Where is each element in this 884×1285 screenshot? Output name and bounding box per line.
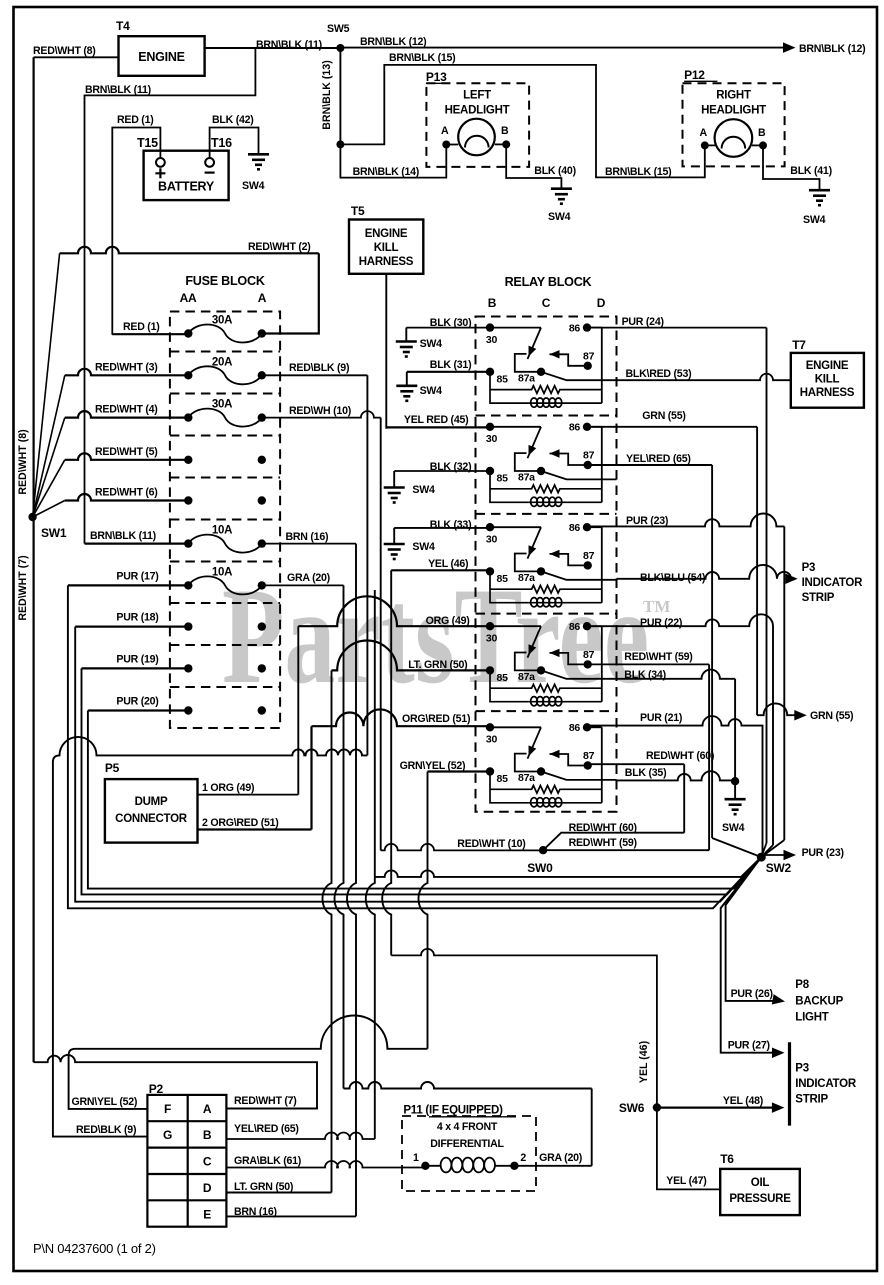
wire GRA (20) from fuse: [262, 584, 344, 586]
wire BRN\BLK (13) SW5 vertical: [339, 48, 341, 144]
svg-text:87: 87: [583, 450, 595, 462]
wire GRA (20) vertical to P11: [335, 585, 344, 1088]
svg-text:85: 85: [497, 573, 509, 585]
svg-text:HARNESS: HARNESS: [800, 387, 855, 399]
svg-text:YEL RED (45): YEL RED (45): [404, 414, 469, 426]
wire RED\WHT (60) to SW0: [543, 833, 684, 851]
svg-text:LT. GRN (50): LT. GRN (50): [408, 659, 467, 671]
connector T7 box: [791, 353, 864, 408]
wire RED\WHT (59) vertical: [708, 664, 710, 850]
wire YEL\RED (65) vertical to SW2: [711, 465, 713, 838]
svg-text:P5: P5: [105, 761, 120, 775]
wire RED\WHT (6): [65, 494, 189, 501]
svg-text:ENGINE: ENGINE: [365, 228, 408, 240]
wire BRN\BLK (11) into fuse: [85, 542, 189, 544]
wire YEL (48): [657, 1106, 777, 1108]
svg-text:RED\WHT (7): RED\WHT (7): [234, 1095, 297, 1107]
svg-text:85: 85: [497, 672, 509, 684]
fuse row 1 A dot: [258, 329, 266, 337]
headlight bulb P12: [715, 119, 753, 157]
svg-text:GRN\YEL (52): GRN\YEL (52): [72, 1096, 138, 1108]
svg-text:RED\WHT (60): RED\WHT (60): [646, 750, 714, 762]
relay K4: [486, 621, 617, 706]
wire BRN\BLK (11) branch down to fuse: [85, 48, 256, 544]
svg-text:87: 87: [583, 750, 595, 762]
fuse block row separator 6: [170, 561, 280, 563]
P11 coil: [425, 1165, 440, 1167]
svg-text:A: A: [441, 125, 449, 137]
relay K5: [486, 722, 617, 807]
svg-text:BRN\BLK (14): BRN\BLK (14): [353, 166, 419, 178]
arrow YEL (48): [772, 1102, 785, 1113]
svg-text:LT. GRN (50): LT. GRN (50): [234, 1181, 293, 1193]
wire BLK (35): [617, 771, 736, 780]
svg-text:BLK (41): BLK (41): [790, 165, 832, 177]
wire LT. GRN (50) horizontal: [332, 641, 491, 671]
fuse 10A row 7: [188, 576, 261, 594]
svg-text:LIGHT: LIGHT: [795, 1012, 828, 1024]
wire SW1 to RED\WHT (2) diagonal: [33, 253, 60, 517]
svg-text:BRN\BLK (12): BRN\BLK (12): [799, 43, 865, 55]
svg-text:GRN (55): GRN (55): [642, 410, 685, 422]
svg-text:B: B: [488, 296, 497, 310]
wire RED\WHT (4): [65, 411, 189, 418]
ground SW4 BLK34 BLK35: [734, 781, 736, 799]
wire YEL\RED (65) vertical from P2-B: [366, 590, 375, 1139]
svg-text:B: B: [501, 125, 509, 137]
wire RED (1) into fuse: [112, 333, 188, 335]
svg-text:P8: P8: [795, 979, 809, 991]
wire RED\WH (10) vertical: [380, 418, 382, 851]
svg-text:GRA\BLK (61): GRA\BLK (61): [234, 1155, 301, 1167]
svg-text:RED\WHT (8): RED\WHT (8): [17, 429, 29, 494]
svg-text:87a: 87a: [518, 572, 535, 584]
svg-text:PUR (20): PUR (20): [116, 696, 158, 708]
wire ORG\RED (51) vertical to P5: [310, 726, 312, 829]
node BLK (34)/(35) ground dot: [731, 777, 739, 785]
svg-text:RED\WHT (3): RED\WHT (3): [95, 361, 158, 373]
P3 indicator strip bar: [788, 1042, 791, 1125]
svg-text:C: C: [542, 296, 551, 310]
wire YEL (46) vertical: [382, 570, 391, 955]
svg-text:SW2: SW2: [766, 861, 792, 875]
svg-text:BRN\BLK (12): BRN\BLK (12): [360, 36, 426, 48]
wire RED\WHT (5): [65, 453, 189, 459]
battery T15 box: [144, 151, 229, 200]
svg-text:SW4: SW4: [420, 385, 443, 397]
svg-text:SW0: SW0: [527, 861, 553, 875]
relay block separator 1: [476, 415, 617, 417]
wire YEL\RED (65) bundle run to SW2: [375, 870, 741, 877]
connector P13 dashed box: [426, 83, 529, 167]
svg-text:BATTERY: BATTERY: [158, 180, 215, 194]
svg-text:4 x 4 FRONT: 4 x 4 FRONT: [437, 1121, 498, 1133]
fuse row 6 A dot: [258, 539, 266, 547]
svg-text:RED\BLK (9): RED\BLK (9): [76, 1124, 136, 1136]
wire BLK (34): [617, 670, 736, 679]
wire SW1 to RED\WHT (4) diagonal: [33, 418, 65, 517]
watermark PartsTree: [222, 560, 649, 712]
wire PUR (27) from SW2: [721, 857, 777, 1053]
svg-text:86: 86: [569, 722, 581, 734]
wire PUR (20): [88, 709, 188, 711]
svg-text:SW4: SW4: [412, 484, 435, 496]
wire GRN (55): [587, 426, 757, 428]
svg-text:GRA (20): GRA (20): [539, 1152, 582, 1164]
wire BRN\BLK (14): [340, 144, 446, 177]
fuse row 9 AA dot: [184, 664, 192, 672]
svg-text:2: 2: [520, 1152, 526, 1164]
svg-text:YEL (47): YEL (47): [666, 1175, 706, 1187]
wire P5 pin 1: [198, 794, 299, 796]
svg-text:P13: P13: [426, 70, 447, 84]
wire PUR (19): [82, 667, 189, 669]
wire ORG (49) vertical to P5: [297, 626, 299, 794]
svg-text:ENGINE: ENGINE: [138, 50, 184, 64]
ground SW4 battery: [248, 153, 269, 156]
wire YEL (47): [657, 1108, 720, 1190]
svg-text:ENGINE: ENGINE: [806, 360, 849, 372]
svg-text:KILL: KILL: [374, 242, 399, 254]
svg-text:HEADLIGHT: HEADLIGHT: [445, 105, 510, 117]
wire RED\WHT (10) to SW0: [381, 844, 543, 850]
pin B dot P12: [759, 141, 767, 149]
arrow BRN\BLK (12): [783, 42, 796, 53]
fuse row 2 AA dot: [184, 371, 192, 379]
svg-text:YEL (48): YEL (48): [723, 1095, 763, 1107]
svg-text:SW6: SW6: [619, 1101, 645, 1115]
svg-text:87: 87: [583, 351, 595, 363]
svg-text:A: A: [700, 127, 708, 139]
svg-text:P11 (IF EQUIPPED): P11 (IF EQUIPPED): [403, 1105, 503, 1117]
P11 pin 1 dot: [421, 1162, 429, 1170]
svg-text:87a: 87a: [518, 671, 535, 683]
P11 pin 2 dot: [510, 1162, 518, 1170]
wire BLK (40): [506, 144, 561, 188]
wire RED\WHT (59) from relay: [588, 663, 709, 665]
connector P2 table: [147, 1095, 226, 1227]
fuse row 6 AA dot: [184, 539, 192, 547]
wire GRN (55) vertical: [756, 427, 758, 715]
svg-text:GRA (20): GRA (20): [287, 572, 330, 584]
wire YEL\RED (65) P2 run: [226, 1133, 374, 1140]
svg-text:STRIP: STRIP: [795, 1094, 828, 1106]
wire PUR (18) bundle run: [75, 627, 761, 902]
wire PUR (24): [587, 327, 767, 329]
fuse row 4 A dot: [258, 456, 266, 464]
pin A dot P12: [701, 141, 709, 149]
wire engine to SW5: [205, 47, 341, 49]
svg-text:SW4: SW4: [412, 541, 435, 553]
wire SW1 to RED\WHT (6) diagonal: [33, 501, 65, 518]
fuse row 2 A dot: [258, 371, 266, 379]
svg-text:PUR (21): PUR (21): [640, 712, 682, 724]
fuse block row separator 2: [170, 393, 280, 395]
svg-text:DIFFERENTIAL: DIFFERENTIAL: [430, 1138, 504, 1150]
svg-text:86: 86: [569, 323, 581, 335]
connector P11 dashed box: [402, 1116, 536, 1191]
svg-text:D: D: [597, 296, 606, 310]
arrow PUR (26): [772, 994, 786, 1007]
svg-text:RED\BLK (9): RED\BLK (9): [289, 362, 349, 374]
svg-text:87: 87: [583, 550, 595, 562]
svg-text:YEL (46): YEL (46): [638, 1041, 650, 1083]
svg-text:10A: 10A: [212, 566, 232, 578]
ground SW4 BLK33: [393, 528, 395, 544]
svg-text:87a: 87a: [518, 373, 535, 385]
wire SW1 main vertical: [32, 57, 34, 1062]
svg-text:GRN (55): GRN (55): [810, 710, 853, 722]
svg-text:87a: 87a: [518, 472, 535, 484]
svg-text:1 ORG (49): 1 ORG (49): [202, 782, 254, 794]
wire PUR (19) bundle run: [82, 668, 762, 894]
svg-text:BLK (35): BLK (35): [625, 767, 667, 779]
svg-text:P3: P3: [795, 1063, 809, 1075]
wire BLK (33): [394, 527, 490, 529]
svg-text:YEL\RED (65): YEL\RED (65): [234, 1123, 299, 1135]
svg-text:C: C: [203, 1155, 212, 1169]
svg-text:BLK (31): BLK (31): [430, 359, 472, 371]
fuse block row separator 7: [170, 602, 280, 604]
fuse row 7 A dot: [258, 581, 266, 589]
svg-text:86: 86: [569, 621, 581, 633]
ground SW4 right headlight: [809, 189, 830, 192]
wire BRN (16) from fuse: [262, 543, 356, 545]
wire PUR (17) bundle run: [68, 585, 761, 908]
wire GRN\YEL (52) horizontal: [428, 770, 491, 772]
svg-text:30: 30: [486, 433, 498, 445]
wire RED\BLK (9) vertical: [366, 375, 368, 755]
wire RED\BLK (9) long run: [53, 737, 368, 1137]
svg-text:E: E: [203, 1207, 211, 1221]
wire BLK\RED (53): [617, 374, 791, 380]
svg-text:RED\WHT (59): RED\WHT (59): [569, 837, 637, 849]
svg-text:SW4: SW4: [242, 180, 265, 192]
wire BRN\BLK (15) upper run: [340, 65, 704, 177]
fuse row 7 AA dot: [184, 581, 192, 589]
svg-text:DUMP: DUMP: [135, 796, 168, 808]
svg-text:T4: T4: [116, 19, 130, 33]
wire ORG\RED (51) horizontal: [312, 709, 491, 726]
svg-text:PUR (23): PUR (23): [802, 847, 844, 859]
svg-text:AA: AA: [180, 291, 197, 305]
wire ORG (49): [298, 596, 490, 626]
svg-text:FUSE BLOCK: FUSE BLOCK: [185, 274, 265, 288]
wire PUR (26) from SW2: [726, 857, 778, 1001]
wire GRN\YEL (52) vertical: [419, 772, 428, 1049]
svg-text:PUR (26): PUR (26): [731, 988, 773, 1000]
node SW6 dot: [653, 1103, 661, 1111]
svg-text:BRN\BLK (11): BRN\BLK (11): [90, 530, 156, 542]
svg-text:BLK\RED (53): BLK\RED (53): [626, 368, 692, 380]
arrow PUR (23) from SW2: [761, 854, 789, 856]
wire PUR (22): [587, 614, 773, 845]
svg-text:D: D: [203, 1181, 212, 1195]
svg-text:T5: T5: [351, 204, 365, 218]
ground SW4 left headlight: [551, 187, 572, 190]
svg-text:RED\WHT (8): RED\WHT (8): [33, 45, 96, 57]
ground SW4 BLK30: [405, 328, 407, 341]
svg-text:20A: 20A: [212, 356, 232, 368]
svg-text:HARNESS: HARNESS: [359, 256, 414, 268]
svg-text:30: 30: [486, 534, 498, 546]
fuse row 9 A dot: [258, 664, 266, 672]
node SW5 junction dot: [336, 44, 344, 52]
fuse block row separator 8: [170, 644, 280, 646]
svg-text:OIL: OIL: [751, 1177, 770, 1189]
svg-text:87: 87: [583, 649, 595, 661]
fuse block row separator 9: [170, 686, 280, 688]
arrow BLK\BLU (54) to P3: [785, 574, 798, 585]
wire RED\WHT (8): [34, 56, 119, 58]
svg-text:RIGHT: RIGHT: [716, 90, 751, 102]
wire YEL (46) lower run: [391, 949, 657, 1108]
svg-text:BRN (16): BRN (16): [234, 1206, 277, 1218]
svg-text:SW4: SW4: [420, 338, 443, 350]
arrow GRN (55): [794, 710, 807, 721]
svg-text:30: 30: [486, 734, 498, 746]
pin A dot P13: [442, 141, 450, 149]
svg-text:PUR (18): PUR (18): [116, 612, 158, 624]
svg-text:10A: 10A: [212, 525, 232, 537]
svg-text:BACKUP: BACKUP: [795, 996, 843, 1008]
svg-text:2 ORG\RED (51): 2 ORG\RED (51): [202, 817, 279, 829]
svg-text:85: 85: [497, 773, 509, 785]
wire BLK (30): [406, 327, 490, 329]
arrow PUR (27): [772, 1047, 785, 1058]
engine T4 box: [119, 36, 205, 76]
svg-text:INDICATOR: INDICATOR: [802, 577, 864, 589]
svg-text:RED\WH (10): RED\WH (10): [289, 405, 351, 417]
svg-text:RED (1): RED (1): [123, 321, 160, 333]
fuse row 4 AA dot: [184, 456, 192, 464]
svg-text:A: A: [258, 291, 267, 305]
fuse row 10 A dot: [258, 706, 266, 714]
svg-text:RED\WHT (5): RED\WHT (5): [95, 446, 158, 458]
svg-text:BRN\BLK (13): BRN\BLK (13): [321, 60, 333, 129]
svg-text:YEL (46): YEL (46): [428, 558, 468, 570]
svg-text:PRESSURE: PRESSURE: [729, 1193, 791, 1205]
wire BRN (16) vertical to P2-E: [347, 544, 356, 1217]
wire RED\WH (10): [262, 411, 381, 418]
wire RED\WHT (3): [65, 369, 189, 376]
wire SW1 to RED\WHT (3) diagonal: [33, 375, 65, 517]
svg-text:RED (1): RED (1): [117, 114, 154, 126]
wire RED (1): [112, 128, 160, 335]
connector P5 box: [105, 779, 198, 843]
svg-text:1: 1: [413, 1152, 419, 1164]
svg-text:CONNECTOR: CONNECTOR: [115, 813, 188, 825]
fuse row 3 A dot: [258, 413, 266, 421]
svg-text:87a: 87a: [518, 772, 535, 784]
fuse 10A row 6: [188, 535, 261, 553]
wire PUR (21): [587, 716, 763, 855]
wire PUR (20) bundle run: [88, 711, 761, 889]
svg-text:BRN\BLK (11): BRN\BLK (11): [256, 39, 322, 51]
fuse row 8 AA dot: [184, 622, 192, 630]
svg-text:RED\WHT (2): RED\WHT (2): [248, 241, 311, 253]
wire PUR (17): [68, 584, 188, 586]
fuse block row separator 1: [170, 351, 280, 353]
svg-text:KILL: KILL: [815, 374, 840, 386]
svg-text:P\N 04237600 (1 of 2): P\N 04237600 (1 of 2): [33, 1241, 156, 1256]
svg-text:T16: T16: [211, 136, 232, 150]
svg-text:BLK (42): BLK (42): [212, 114, 254, 126]
svg-text:BLK (33): BLK (33): [430, 519, 472, 531]
relay K3: [486, 522, 617, 607]
svg-text:30: 30: [486, 633, 498, 645]
fuse block dashed box: [170, 312, 280, 729]
wire YEL (46) horizontal: [391, 569, 490, 571]
fuse 30A row 3: [188, 409, 261, 427]
svg-text:PUR (22): PUR (22): [640, 617, 682, 629]
relay K2: [486, 422, 617, 507]
wire PUR (22) vertical to SW2: [761, 845, 773, 857]
node SW0 dot: [539, 846, 547, 854]
battery minus terminal: [205, 158, 214, 167]
svg-text:BRN (16): BRN (16): [286, 531, 329, 543]
svg-text:INDICATOR: INDICATOR: [795, 1078, 857, 1090]
svg-text:T6: T6: [720, 1152, 734, 1166]
wire PUR (24) vertical to SW2: [766, 328, 768, 843]
wire RED\WHT (59) from SW0: [543, 849, 709, 851]
fuse 30A row 1: [188, 325, 261, 343]
wire BLK (41): [763, 145, 820, 189]
svg-text:PUR (23): PUR (23): [626, 515, 668, 527]
svg-text:30: 30: [486, 334, 498, 346]
node SW2 dot: [757, 853, 766, 862]
connector T5 box: [349, 220, 423, 274]
node SW1 dot: [28, 513, 36, 521]
svg-text:T15: T15: [137, 136, 158, 150]
wire LT. GRN (50) vertical to P2-D: [323, 670, 332, 1192]
svg-text:ORG\RED (51): ORG\RED (51): [402, 713, 470, 725]
wire T5 to relay YEL RED (45): [385, 274, 387, 429]
fuse 20A row 2: [188, 366, 261, 384]
fuse row 5 A dot: [258, 496, 266, 504]
svg-text:LEFT: LEFT: [463, 90, 491, 102]
headlight bulb P13: [458, 119, 495, 156]
fuse row 1 AA dot: [184, 329, 192, 337]
svg-text:YEL\RED (65): YEL\RED (65): [626, 453, 691, 465]
wire BLK (31): [407, 371, 490, 373]
fuse row 3 AA dot: [184, 413, 192, 421]
svg-text:BLK (40): BLK (40): [534, 165, 576, 177]
connector T6 box: [720, 1169, 800, 1215]
svg-text:30A: 30A: [212, 315, 232, 327]
svg-text:P3: P3: [802, 562, 816, 574]
wire BLK\BLU (54): [617, 565, 792, 579]
svg-text:RED\WHT (59): RED\WHT (59): [624, 651, 692, 663]
ground SW4 BLK32: [393, 471, 395, 487]
relay block dashed box: [476, 317, 617, 812]
relay K1: [486, 323, 617, 408]
relay block separator 4: [476, 710, 617, 712]
svg-text:TM: TM: [643, 597, 670, 616]
ground SW4 BLK31: [406, 372, 408, 385]
wire YEL\RED (65) from relay: [588, 464, 712, 466]
fuse block row separator 4: [170, 477, 280, 479]
svg-text:PUR (24): PUR (24): [622, 316, 664, 328]
svg-text:BRN\BLK (15): BRN\BLK (15): [605, 166, 671, 178]
connector P12 dashed box: [683, 83, 785, 166]
svg-text:SW4: SW4: [722, 822, 745, 834]
node SW5 lower junction dot: [336, 140, 344, 148]
svg-text:PUR (17): PUR (17): [116, 570, 158, 582]
svg-text:SW4: SW4: [803, 214, 826, 226]
svg-text:T7: T7: [792, 338, 806, 352]
fuse block row separator 5: [170, 519, 280, 521]
